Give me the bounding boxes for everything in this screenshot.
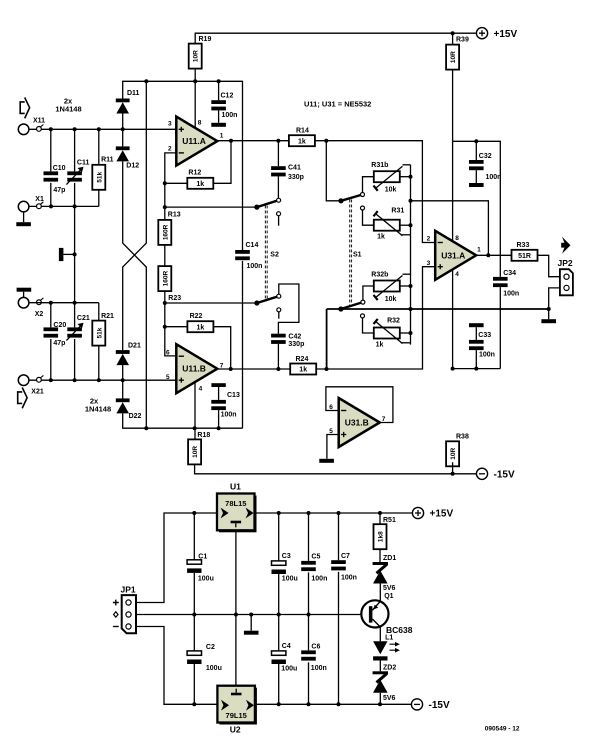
wire pin8 U31.A xyxy=(452,141,454,241)
zener diode ZD2 xyxy=(373,665,397,702)
capacitor C13 xyxy=(211,392,240,419)
svg-text:R39: R39 xyxy=(456,37,469,44)
resistor R19 xyxy=(189,36,212,68)
wire +15V rail with R19 stub xyxy=(195,33,476,43)
svg-text:U11.B: U11.B xyxy=(182,364,206,374)
svg-text:2: 2 xyxy=(427,235,431,242)
connector X21 xyxy=(18,375,44,396)
svg-text:100n: 100n xyxy=(221,412,237,419)
node R14 node xyxy=(324,139,328,143)
node X1row/C10 xyxy=(49,204,53,208)
capacitor C34 xyxy=(493,270,519,298)
wire C13 top bar stub xyxy=(218,387,220,400)
svg-text:1N4148: 1N4148 xyxy=(85,405,111,414)
svg-text:1k: 1k xyxy=(196,181,204,188)
ground C33 top xyxy=(469,323,484,327)
svg-text:100n: 100n xyxy=(479,352,495,359)
op-amp U11.B xyxy=(176,344,217,393)
wire R31 from lower throw xyxy=(363,210,374,225)
capacitor C6 xyxy=(301,643,327,672)
ground U31.B ground xyxy=(319,459,334,463)
node fb/R12 xyxy=(163,181,167,185)
capacitor C7 xyxy=(331,553,357,582)
node bus/R31b xyxy=(409,175,413,179)
svg-text:X11: X11 xyxy=(33,118,45,125)
node outB/R22 xyxy=(229,367,233,371)
svg-text:X21: X21 xyxy=(31,389,44,396)
wire C11 column xyxy=(74,129,76,302)
wire U1 output row xyxy=(255,512,413,514)
svg-text:+15V: +15V xyxy=(430,509,454,520)
wire pin8 U11.A xyxy=(194,81,196,128)
wire S1b throw to R32b xyxy=(363,286,374,300)
svg-text:C14: C14 xyxy=(246,242,259,249)
svg-text:C32: C32 xyxy=(479,153,492,160)
svg-text:100u: 100u xyxy=(206,665,222,672)
node ground tap xyxy=(73,252,77,256)
svg-text:ZD2: ZD2 xyxy=(383,665,396,672)
node outB/R24 xyxy=(325,367,329,371)
wire JP1 + to U1 xyxy=(136,513,217,603)
connector JP2 xyxy=(558,258,573,295)
node row1/D12 xyxy=(121,127,125,131)
node V-row/R18 xyxy=(193,426,197,430)
resistor R21 xyxy=(92,313,114,346)
resistor R18 xyxy=(188,432,210,464)
svg-text:R19: R19 xyxy=(199,36,212,43)
ground C12 ground xyxy=(211,123,226,127)
svg-text:1k: 1k xyxy=(376,341,384,348)
wire C12 to ground xyxy=(218,110,220,122)
node row2/R21 xyxy=(97,378,101,382)
svg-text:C41: C41 xyxy=(288,164,301,171)
node X1row/C11 xyxy=(73,204,77,208)
wire R32 right xyxy=(400,332,411,334)
op-amp U31.B xyxy=(339,398,380,447)
svg-text:R32: R32 xyxy=(387,318,400,325)
wire D22 bottom + U11 V- row xyxy=(123,414,243,429)
wire S2 top unused throw stub xyxy=(278,216,280,226)
op-amp U31.A xyxy=(435,231,476,280)
wire pot right bus xyxy=(410,165,412,345)
svg-text:10R: 10R xyxy=(192,446,199,458)
capacitor C3 (electrolytic) xyxy=(272,553,298,583)
diode D12 xyxy=(116,146,139,169)
resistor R39 xyxy=(446,37,469,70)
resistor R51 xyxy=(374,517,396,549)
wire R39 bottom to pin8 node xyxy=(452,69,454,141)
wire R32b wiper elbow xyxy=(403,273,411,275)
svg-text:1: 1 xyxy=(477,247,481,254)
svg-text:U11.A: U11.A xyxy=(182,136,206,146)
svg-text:C4: C4 xyxy=(282,643,291,650)
svg-text:C21: C21 xyxy=(77,315,90,322)
svg-text:10k: 10k xyxy=(385,296,397,303)
node V-row/x146 xyxy=(144,426,148,430)
node outB/C42 xyxy=(276,367,280,371)
wire R12 right up to output xyxy=(213,141,231,184)
wire S2 bottom pivot row xyxy=(165,302,257,304)
svg-text:C13: C13 xyxy=(227,392,240,399)
node V-row/pin4 xyxy=(451,367,455,371)
svg-text:4: 4 xyxy=(455,271,459,278)
svg-text:330p: 330p xyxy=(288,341,304,348)
capacitor C2 (electrolytic) xyxy=(187,644,222,672)
wire R32 from lower throw xyxy=(363,318,374,333)
wire U31.B feedback loop xyxy=(326,387,393,423)
svg-text:100n: 100n xyxy=(503,290,519,297)
svg-text:+15V: +15V xyxy=(494,29,518,40)
wire ground row xyxy=(327,309,549,369)
wire D11 to input row xyxy=(122,114,124,147)
svg-text:C11: C11 xyxy=(77,160,90,167)
trimmer capacitor C11 xyxy=(66,160,89,185)
svg-text:1N4148: 1N4148 xyxy=(55,105,81,114)
wire U2 gnd pin xyxy=(235,615,237,686)
capacitor C33 xyxy=(469,332,495,359)
switch gang link S2 xyxy=(265,206,267,300)
svg-text:-15V: -15V xyxy=(494,470,515,481)
node U1row/C1 xyxy=(192,511,196,515)
input arrow X11 xyxy=(20,98,29,119)
wire JP2 pin2 to ground xyxy=(549,288,560,319)
svg-text:L1: L1 xyxy=(385,635,393,642)
node fb/S2 row xyxy=(163,205,167,209)
resistor R23 xyxy=(158,266,181,302)
svg-text:1: 1 xyxy=(220,133,224,140)
svg-text:R32b: R32b xyxy=(371,272,388,279)
svg-text:100n: 100n xyxy=(222,112,238,119)
svg-text:ZD1: ZD1 xyxy=(383,555,396,562)
node 0rail/gnd xyxy=(249,613,253,617)
capacitor C10 xyxy=(44,165,66,194)
node U1row/C3 xyxy=(277,511,281,515)
node 0rail/C1 xyxy=(192,613,196,617)
svg-text:5: 5 xyxy=(166,374,170,381)
svg-text:D22: D22 xyxy=(129,413,142,420)
svg-text:78L15: 78L15 xyxy=(225,499,246,508)
svg-text:100u: 100u xyxy=(282,576,298,583)
node 0rail/U1U2 xyxy=(234,613,238,617)
ground above X2 xyxy=(17,288,32,292)
svg-text:U1: U1 xyxy=(230,482,241,492)
wire C14 bottom column xyxy=(242,261,244,428)
wire JP1 - to U2 xyxy=(136,627,217,705)
svg-text:51R: 51R xyxy=(518,253,531,260)
wire C10 column xyxy=(50,129,52,206)
svg-text:090549 - 12: 090549 - 12 xyxy=(485,725,520,732)
wire R32b right xyxy=(400,285,411,287)
svg-text:R12: R12 xyxy=(188,170,201,177)
wire C34 down to V- row xyxy=(499,287,501,369)
svg-text:R38: R38 xyxy=(456,434,469,441)
svg-text:5V6: 5V6 xyxy=(383,585,396,592)
svg-text:C34: C34 xyxy=(503,270,516,277)
svg-text:R21: R21 xyxy=(101,313,114,320)
svg-text:R22: R22 xyxy=(190,313,203,320)
svg-text:100u: 100u xyxy=(198,576,214,583)
svg-text:10R: 10R xyxy=(193,50,200,62)
wire ground tap stub xyxy=(63,253,74,255)
node bus/R31 xyxy=(409,223,413,227)
svg-text:U2: U2 xyxy=(230,725,241,735)
svg-text:5V6: 5V6 xyxy=(383,695,396,702)
svg-text:S1: S1 xyxy=(353,252,362,259)
wire pin4 U31.A xyxy=(452,270,454,369)
wire x146 column + crossover diagonal xyxy=(123,81,147,350)
resistor R13 xyxy=(158,212,180,245)
diode D22 xyxy=(116,398,142,420)
node 0rail/C5C6 xyxy=(307,613,311,617)
wire JP1 0 rail xyxy=(136,614,361,616)
capacitor C4 (electrolytic) xyxy=(272,643,298,673)
svg-text:1k: 1k xyxy=(197,324,205,331)
connector X2 xyxy=(18,297,43,318)
resistor R14 xyxy=(289,128,315,147)
wire X2 row xyxy=(29,302,99,304)
diode D21 xyxy=(116,342,141,365)
node out/R12 xyxy=(229,139,233,143)
capacitor C20 xyxy=(44,322,67,347)
svg-text:330p: 330p xyxy=(288,174,304,181)
node gnd row/JP2 xyxy=(547,307,551,311)
wire R31b right xyxy=(400,176,411,178)
power terminal +15V xyxy=(476,28,517,40)
node X2row/C21 xyxy=(73,301,77,305)
switch S1b pole xyxy=(338,300,365,312)
node rail/R19 xyxy=(193,79,197,83)
wire ZD1 to Q1 xyxy=(379,584,381,602)
svg-text:U31.A: U31.A xyxy=(441,250,465,260)
node U1row/R51 xyxy=(378,511,382,515)
wire PSU ground stub xyxy=(250,615,252,631)
zener diode ZD1 xyxy=(373,555,397,592)
wire R51 to ZD1 xyxy=(379,549,381,562)
capacitor C12 xyxy=(211,93,237,120)
connector X11 xyxy=(18,118,45,135)
wire C32 to ground xyxy=(475,170,477,183)
diode D11 xyxy=(116,90,140,114)
svg-text:C33: C33 xyxy=(478,332,491,339)
wire feedback from output to bus xyxy=(411,201,489,256)
node U1row/C5 xyxy=(307,511,311,515)
op-amp U11.A xyxy=(176,117,217,166)
svg-text:C20: C20 xyxy=(53,322,66,329)
node bus/R32 xyxy=(409,331,413,335)
node +15V rail / R39 xyxy=(451,31,455,35)
wire X21 input row xyxy=(29,379,177,381)
node X2row/C20 xyxy=(49,301,53,305)
svg-text:C1: C1 xyxy=(198,554,207,561)
connector JP1 xyxy=(113,584,136,633)
node V-row/C13 xyxy=(217,426,221,430)
wire R11 column xyxy=(98,129,100,206)
wire Q1 to L1 xyxy=(379,627,381,641)
svg-text:D12: D12 xyxy=(126,163,139,170)
resistor R11 xyxy=(92,157,113,190)
svg-text:1k8: 1k8 xyxy=(378,531,385,542)
svg-text:51k: 51k xyxy=(96,171,103,182)
node fb/S2b row xyxy=(163,301,167,305)
voltage regulator U1 78L15 xyxy=(217,494,257,533)
svg-text:2: 2 xyxy=(168,146,172,153)
node U2row/ZD2 xyxy=(378,702,382,706)
svg-text:160R: 160R xyxy=(162,224,169,240)
wire row2 to D22 xyxy=(122,380,124,398)
ground PSU ground xyxy=(244,631,259,635)
wire R31 right xyxy=(400,224,411,226)
wire U11.A output row xyxy=(217,140,289,142)
wire C20 column xyxy=(50,303,52,381)
transistor Q1 xyxy=(361,593,412,635)
svg-text:R18: R18 xyxy=(197,432,210,439)
svg-text:100n: 100n xyxy=(311,575,327,582)
capacitor C1 (electrolytic) xyxy=(187,554,214,583)
switch S1a pole xyxy=(338,193,364,204)
wire ZD2 to rail xyxy=(379,693,381,705)
wire R33 to JP2 pin1 xyxy=(538,255,560,276)
svg-text:51k: 51k xyxy=(96,327,103,338)
wire R31b wiper elbow xyxy=(403,164,411,166)
wire C41 top xyxy=(277,141,279,167)
wire pin2 feedback column xyxy=(165,153,177,356)
wire R14 node down to S1 pivot xyxy=(326,141,341,201)
wire pin4 U11.B to R18 xyxy=(194,382,196,440)
svg-text:10R: 10R xyxy=(450,448,457,460)
resistor R24 xyxy=(290,356,316,375)
resistor R38 xyxy=(446,434,469,467)
wire S2b throw loop to C42 xyxy=(278,284,299,334)
svg-text:C7: C7 xyxy=(341,553,350,560)
wire C5 column xyxy=(308,513,310,615)
svg-text:3: 3 xyxy=(168,121,172,128)
node row2/C21 xyxy=(73,378,77,382)
ground C13 top xyxy=(211,383,225,387)
wire R21 column xyxy=(98,303,100,381)
svg-text:8: 8 xyxy=(198,120,202,127)
svg-text:3: 3 xyxy=(427,260,431,267)
wire C41 to S2 throw xyxy=(277,176,279,198)
power terminal +15V xyxy=(412,507,453,519)
wire C7 column xyxy=(338,513,340,704)
resistor R22 xyxy=(187,313,213,332)
wire -15V rail xyxy=(195,464,477,474)
trimmer R32b xyxy=(371,272,402,303)
power terminal -15V xyxy=(411,699,450,711)
svg-text:D21: D21 xyxy=(128,342,141,349)
wire U11 V+ rail xyxy=(123,81,243,250)
trimmer R31b xyxy=(371,162,402,194)
node bus/R32b xyxy=(409,284,413,288)
voltage regulator U2 79L15 xyxy=(217,686,257,725)
svg-text:X1: X1 xyxy=(35,196,44,203)
node -15 rail/R38 xyxy=(451,472,455,476)
svg-text:R13: R13 xyxy=(168,212,181,219)
node out31/fb xyxy=(486,253,490,257)
wire U31.B pin5 to ground xyxy=(327,435,339,459)
wire R51 top xyxy=(379,513,381,524)
switch S2b pole xyxy=(254,294,281,305)
node bus/fb xyxy=(409,199,413,203)
svg-text:6: 6 xyxy=(329,404,333,411)
wire S1 throw to R31b xyxy=(363,177,374,193)
wire C2 column xyxy=(193,615,195,705)
capacitor C32 xyxy=(469,153,501,181)
wire D21 to row2 xyxy=(122,365,124,380)
svg-text:100n: 100n xyxy=(247,263,263,270)
ground JP2 ground xyxy=(541,319,556,323)
wire L1 to ZD2 xyxy=(379,661,381,672)
svg-text:R14: R14 xyxy=(296,128,309,135)
svg-text:R31: R31 xyxy=(391,207,404,214)
svg-text:R23: R23 xyxy=(168,295,181,302)
wire R31 wiper elbow xyxy=(401,234,411,236)
wire R32 wiper elbow xyxy=(401,342,411,344)
svg-text:R24: R24 xyxy=(296,356,309,363)
node out/C41 xyxy=(276,139,280,143)
svg-text:S2: S2 xyxy=(270,252,279,259)
node row1/C11 xyxy=(73,127,77,131)
wire X2 ground stub xyxy=(23,292,25,298)
node rail/C12 xyxy=(217,79,221,83)
wire C6 column xyxy=(308,615,310,705)
svg-text:Q1: Q1 xyxy=(384,593,393,600)
svg-text:4: 4 xyxy=(199,385,203,392)
svg-text:R51: R51 xyxy=(383,517,396,524)
wire C42 to output row xyxy=(277,344,279,369)
wire X1 row xyxy=(29,205,99,207)
svg-text:1k: 1k xyxy=(298,138,306,145)
svg-text:D11: D11 xyxy=(127,90,140,97)
wire C21 column xyxy=(74,303,76,381)
trimmer capacitor C21 xyxy=(66,315,89,340)
capacitor C41 xyxy=(271,164,304,181)
svg-text:100n: 100n xyxy=(311,665,327,672)
capacitor C42 xyxy=(271,334,304,349)
svg-text:U31.B: U31.B xyxy=(345,418,369,428)
output arrow JP2 xyxy=(561,237,570,254)
svg-text:100n: 100n xyxy=(486,174,502,181)
wire R22 right down to output xyxy=(213,327,230,369)
wire R14 to pin2 U31.A xyxy=(315,141,435,243)
svg-text:79L15: 79L15 xyxy=(226,711,247,720)
svg-text:X2: X2 xyxy=(35,311,44,318)
svg-text:C10: C10 xyxy=(53,165,66,172)
wire R39 top xyxy=(452,33,454,44)
node row1/R11 xyxy=(97,127,101,131)
wire U31.A output row xyxy=(476,254,511,256)
wire C12 top xyxy=(218,81,220,100)
wire R22 left xyxy=(165,326,188,328)
wire R38 bottom xyxy=(452,462,454,474)
wire C33 to V- row xyxy=(475,350,477,369)
ground (mid-left) xyxy=(59,248,64,261)
node U2row/C6 xyxy=(307,702,311,706)
wire V- row right xyxy=(453,368,501,370)
node row1/C10 xyxy=(49,127,53,131)
node bus/gnd row xyxy=(409,307,413,311)
wire R19 to U11 rail xyxy=(194,69,196,82)
switch gang link S1 xyxy=(350,200,352,307)
node U2row/C7 xyxy=(337,702,341,706)
svg-text:100n: 100n xyxy=(341,575,357,582)
svg-text:C6: C6 xyxy=(311,643,320,650)
wire C4 column xyxy=(278,615,280,705)
svg-text:1k: 1k xyxy=(299,367,307,374)
wire +15 branch row xyxy=(453,141,501,277)
svg-text:R33: R33 xyxy=(517,242,530,249)
svg-text:C42: C42 xyxy=(288,334,301,341)
